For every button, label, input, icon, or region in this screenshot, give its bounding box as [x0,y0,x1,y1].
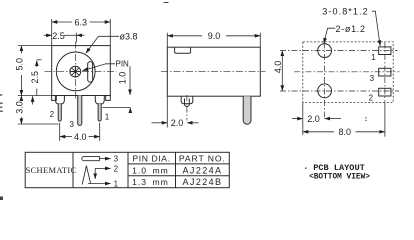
svg-text:2: 2 [50,110,55,119]
schematic wire pin 2 [95,167,110,169]
dimension 9.0 [167,33,260,47]
svg-text:1.0: 1.0 [118,72,128,85]
horizontal centerline [45,70,117,72]
svg-text:5.0: 5.0 [15,58,25,71]
svg-text:2.0: 2.0 [307,114,320,124]
svg-text:4.0: 4.0 [74,132,87,142]
dimension 4.0 front [60,123,100,141]
front view body [52,46,111,96]
svg-text:3: 3 [69,120,74,129]
dimension dia 3.8 leader [86,36,119,53]
pin 1 leg [98,104,101,121]
dimension 2.5 left [37,60,42,96]
schematic pin 2 drop with arrow [94,168,96,179]
svg-text:1: 1 [114,179,119,188]
svg-text:AJ224B: AJ224B [183,177,223,187]
dimension 2.5 top [44,33,85,43]
schematic symbol barrel pin 3 [82,157,100,161]
side view centerline [161,71,266,73]
svg-text:SCHEMATIC: SCHEMATIC [26,165,77,175]
contact slot window [88,62,93,83]
side view pin centerline [186,95,188,121]
pcb pad 1 [379,47,391,55]
svg-text:PIN: PIN [116,60,130,69]
svg-text:1: 1 [105,113,110,122]
dimension 1.0 [102,66,130,113]
svg-text:4.0: 4.0 [273,61,283,74]
pin 2 shoulder [55,96,64,104]
svg-text:2.5: 2.5 [30,71,40,84]
scan artifacts left edge [0,2,367,200]
pcb pad 3 [379,68,391,76]
svg-text:8.0: 8.0 [339,127,352,137]
svg-text:2-ø1.2: 2-ø1.2 [335,24,365,34]
PIN label leader [83,64,116,71]
pcb pad labels [369,53,377,102]
dimension 2.0 pcb [292,102,341,135]
pcb hole circle bottom [318,84,332,98]
dimension 8.0 [303,102,385,136]
dimension 3.0 [18,96,59,125]
pin number labels front view [50,110,110,129]
svg-text:PCB LAYOUT: PCB LAYOUT [313,163,365,173]
pin 2 leg [58,104,61,121]
vertical centerline [75,42,77,100]
right foot [106,96,111,101]
svg-text:1.3 mm: 1.3 mm [132,177,169,187]
schematic spring contact [82,166,90,185]
svg-text:9.0: 9.0 [208,31,221,41]
pin 3 leg [78,96,82,126]
pin 1 shoulder [95,96,104,104]
svg-text:PART NO.: PART NO. [179,154,226,164]
pcb layout dashed outline [303,42,393,103]
dimension 2.0 side [152,96,199,127]
svg-text:AJ224A: AJ224A [183,165,223,175]
pcb centerlines [280,43,400,119]
schematic wire pin 3 [99,158,110,160]
svg-text:<BOTTOM VIEW>: <BOTTOM VIEW> [309,173,370,181]
schematic wire pin 1 [88,183,111,185]
svg-text:2: 2 [114,164,119,173]
svg-text:ø3.8: ø3.8 [120,31,138,41]
side view front pin tip [185,99,190,107]
side view long pin [243,96,251,124]
svg-text:2.5: 2.5 [52,31,65,41]
front view barrel circle [56,52,95,91]
dimension 4.0 pcb [281,51,283,91]
svg-text:3.0: 3.0 [15,101,25,114]
dimension 5.0 [18,46,52,96]
schematic pin numbers [114,155,119,189]
svg-text:2: 2 [369,93,374,102]
left foot [52,96,57,101]
side view body [161,47,266,124]
svg-text:1.0 mm: 1.0 mm [132,165,169,175]
pcb hole circle top [318,44,332,58]
center pin circle with star [70,66,81,77]
table text [132,154,226,188]
side view notch [175,47,191,53]
pcb pad 2 [379,88,391,96]
dimension 6.3 [52,19,111,46]
svg-text:1: 1 [371,53,376,62]
table frame [25,152,229,187]
svg-text:3: 3 [114,155,119,164]
svg-text:6.3: 6.3 [75,17,88,27]
svg-text:3-0.8*1.2: 3-0.8*1.2 [322,7,368,17]
side view front pin shoulder [181,96,193,104]
svg-text:2.0: 2.0 [171,118,184,128]
svg-text:3: 3 [370,74,375,83]
svg-text:PIN DIA.: PIN DIA. [132,154,170,164]
